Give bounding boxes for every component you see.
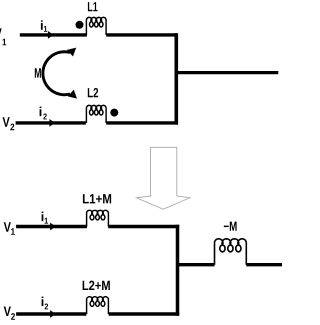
- output wire (top circuit): [176, 71, 278, 74]
- current arrow i2 (bottom): [50, 310, 56, 318]
- label L1+M: [83, 194, 111, 203]
- current arrow i1 (top): [48, 31, 54, 39]
- label L1: [88, 2, 98, 11]
- node V2 label (bottom): [4, 307, 11, 316]
- current i1 label (bottom): [42, 212, 44, 221]
- label -M: [224, 222, 237, 231]
- node V1 (clipped label, top-left): [0, 28, 2, 37]
- wire bottom right output: [246, 263, 282, 266]
- inductor L1+M: [87, 210, 109, 226]
- wire top row2 right: [106, 121, 178, 124]
- inductor -M: [215, 239, 247, 265]
- current arrow i2 (top): [49, 119, 55, 127]
- inductor L2+M: [87, 297, 109, 314]
- current i2 label (bottom): [42, 297, 44, 306]
- current i1 label (top): [41, 20, 43, 29]
- wire bottom row2 right: [109, 312, 180, 315]
- wire bottom row1 left: [16, 225, 87, 228]
- vertical bus (bottom circuit): [176, 225, 180, 316]
- wire top row1 left: [20, 33, 87, 36]
- node V1 label (bottom): [4, 222, 11, 231]
- mutual coupling curved arrow: [43, 52, 70, 95]
- wire to -M inductor: [178, 263, 215, 266]
- transform arrow (hollow, down): [137, 147, 190, 209]
- polarity dot L2 (right): [110, 109, 118, 117]
- mutual coupling label M: [35, 68, 41, 77]
- label L2: [88, 88, 98, 97]
- inductor L1: [86, 17, 106, 35]
- label L2+M: [83, 281, 110, 290]
- current arrow i1 (bottom): [50, 223, 56, 231]
- current i2 label (top): [40, 107, 42, 116]
- polarity dot L1 (left): [76, 21, 84, 29]
- vertical bus (top circuit): [175, 33, 179, 124]
- wire top row1 right: [106, 33, 178, 36]
- wire bottom row2 left: [16, 312, 86, 315]
- wire bottom row1 right: [108, 225, 179, 228]
- wire top row2 left: [16, 121, 86, 124]
- inductor L2: [86, 105, 106, 123]
- node V2 label (top circuit): [2, 117, 9, 126]
